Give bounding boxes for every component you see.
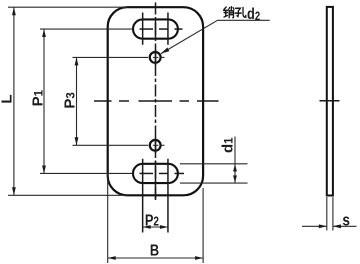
top slot arc-center tick right <box>167 13 169 45</box>
dimension d1: dimension line <box>233 137 237 184</box>
dimension P1: dimension line <box>42 29 46 173</box>
top slot horizontal centerline <box>140 28 183 30</box>
label s <box>342 211 350 230</box>
svg-text:L: L <box>0 94 16 103</box>
label P1 <box>30 89 47 106</box>
label P2 <box>145 212 159 230</box>
label P3 <box>62 92 79 108</box>
label d1 <box>219 137 236 153</box>
vertical centerline of plate <box>155 3 157 201</box>
销 <box>224 7 234 18</box>
leader line to pin hole <box>161 20 270 53</box>
bottom slot horizontal centerline <box>140 172 185 174</box>
side view plate (thickness s) <box>327 7 333 196</box>
dimension d1: extension lines <box>180 164 248 183</box>
dimension L: extension lines <box>8 7 127 195</box>
dimension P1: extension lines <box>40 29 133 173</box>
svg-text:B: B <box>150 242 159 260</box>
dimension s: dimension line with outside arrows <box>302 224 357 228</box>
horizontal centerline of plate <box>94 100 219 102</box>
svg-text:s: s <box>342 211 350 230</box>
bottom slot <box>133 164 178 183</box>
plate outline (front view) <box>108 7 203 195</box>
bottom slot arc-center tick left (extends as P2 extension line) <box>142 159 144 233</box>
孔 <box>235 8 246 18</box>
pin hole bottom (d2) <box>150 140 161 151</box>
dimension P3: extension lines (through pin holes) <box>73 57 165 145</box>
label d2 text <box>247 6 260 24</box>
dimension P3: dimension line <box>75 57 79 145</box>
side view horizontal centerline <box>320 100 340 102</box>
label L <box>0 94 16 103</box>
dimension B: extension lines <box>108 172 203 263</box>
bottom slot arc-center tick right (extends as P2 extension line) <box>167 159 169 233</box>
svg-text:d: d <box>247 6 255 24</box>
label B <box>150 242 159 260</box>
top slot <box>133 19 178 38</box>
label 销孔d2 (pin hole d2): CJK drawn as strokes <box>224 7 246 18</box>
dimension P2: dimension line <box>143 225 168 229</box>
svg-text:P2: P2 <box>145 212 159 230</box>
top slot arc-center tick left <box>142 13 144 45</box>
dimension B: dimension line <box>108 256 203 260</box>
dimension s: extension lines <box>327 197 333 231</box>
svg-text:2: 2 <box>255 10 260 23</box>
dimension L: dimension line <box>12 7 16 195</box>
pin hole top (d2) <box>150 52 161 63</box>
